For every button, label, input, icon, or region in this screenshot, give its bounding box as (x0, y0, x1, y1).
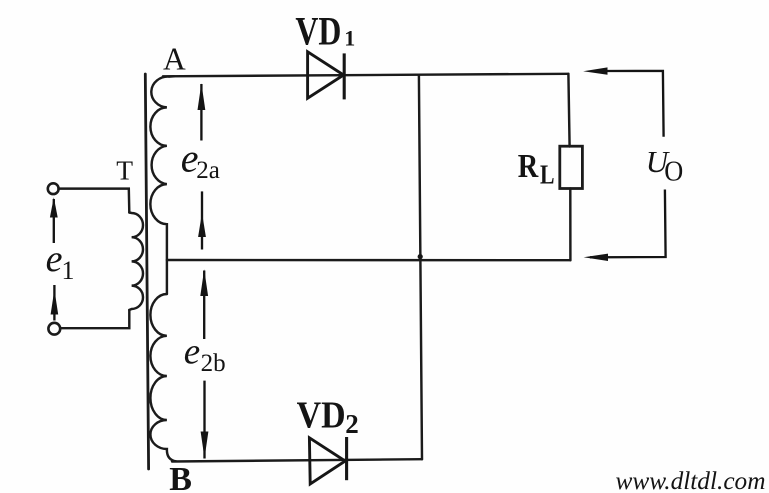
wire junction vertical (419, 75, 422, 459)
svg-text:e: e (184, 331, 200, 372)
UO bracket top arrow (583, 67, 663, 136)
wire center-tap rail (167, 259, 571, 262)
svg-text:e: e (46, 238, 63, 280)
wire RL bottom lead (569, 189, 572, 261)
svg-text:R: R (518, 148, 539, 185)
secondary winding lower e2b (150, 294, 176, 461)
transformer core (145, 74, 148, 469)
svg-text:B: B (169, 461, 192, 493)
svg-text:2b: 2b (201, 350, 226, 377)
primary winding T (129, 213, 143, 311)
terminal top (48, 183, 59, 194)
svg-text:T: T (116, 155, 133, 186)
wire primary top (59, 189, 130, 213)
wire primary bottom (61, 310, 129, 328)
svg-text:1: 1 (344, 26, 355, 51)
arrow e2a lower (198, 191, 206, 249)
secondary winding upper e2a (150, 76, 174, 294)
arrow e1 lower (51, 285, 59, 321)
arrow e2a upper (198, 83, 206, 140)
arrow e2b upper (200, 269, 208, 339)
svg-text:A: A (163, 41, 186, 76)
resistor RL (560, 146, 583, 188)
svg-text:O: O (664, 156, 683, 188)
svg-text:www.dltdl.com: www.dltdl.com (616, 468, 766, 493)
svg-text:VD: VD (295, 9, 341, 54)
svg-text:L: L (540, 160, 555, 190)
arrow e1 upper (50, 197, 58, 243)
wire RL top lead (568, 74, 569, 147)
svg-text:1: 1 (62, 256, 75, 285)
svg-text:VD: VD (297, 395, 346, 437)
terminal bottom (48, 323, 60, 335)
svg-text:2a: 2a (196, 157, 220, 184)
svg-text:2: 2 (345, 409, 359, 439)
wire bottom rail B (172, 459, 422, 461)
diode VD1 (308, 52, 345, 100)
wire top rail A to top-right corner (163, 74, 568, 77)
junction node dot (418, 254, 423, 259)
diode VD2 (309, 437, 346, 484)
arrow e2b lower (points down) (201, 381, 209, 459)
UO bracket bottom arrow (584, 190, 666, 262)
